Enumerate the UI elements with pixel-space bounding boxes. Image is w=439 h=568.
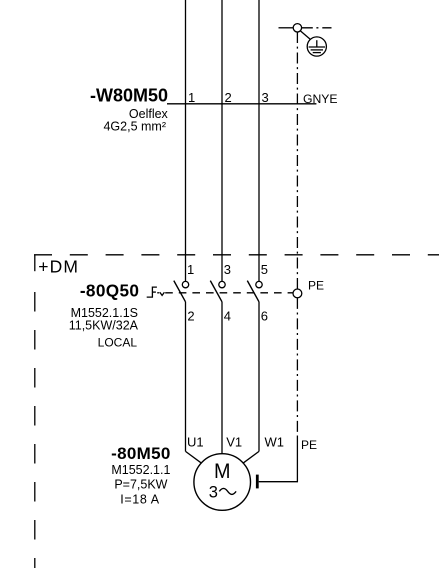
svg-text:Oelflex: Oelflex: [129, 107, 169, 121]
svg-text:U1: U1: [187, 435, 204, 450]
wire PE vertical dash-dot upper: [296, 32, 298, 289]
breaker Q50 pole 1 contact: [174, 281, 189, 302]
svg-text:4G2,5 mm²: 4G2,5 mm²: [103, 120, 166, 134]
wire PE dash-dot right: [302, 27, 332, 29]
svg-text:-80Q50: -80Q50: [80, 280, 139, 300]
terminal PE top: [293, 24, 301, 32]
wire L3 top: [258, 0, 260, 281]
svg-text:GNYE: GNYE: [303, 92, 338, 106]
cable W80M50 line: [167, 103, 316, 105]
wire PE dash-dot lower: [296, 298, 298, 438]
svg-text:PE: PE: [308, 279, 324, 293]
location boundary +DM horizontal dashed: [34, 254, 439, 256]
svg-text:-80M50: -80M50: [111, 444, 170, 463]
wire L1 top: [185, 0, 187, 281]
svg-text:W1: W1: [265, 435, 285, 450]
svg-text:P=7,5KW: P=7,5KW: [114, 478, 167, 492]
wire L2 top: [221, 0, 223, 281]
trip symbol F: [147, 287, 157, 297]
location boundary left vertical dashed: [34, 292, 36, 568]
svg-text:11,5KW/32A: 11,5KW/32A: [69, 319, 139, 333]
wire PE to motor: [259, 481, 298, 483]
wire to earth symbol: [300, 31, 310, 39]
svg-text:1: 1: [187, 262, 194, 277]
motor PE terminal bar: [256, 475, 259, 489]
earth symbol PE: [307, 37, 326, 56]
motor tilde: [219, 488, 236, 494]
svg-text:M: M: [214, 460, 231, 483]
svg-text:2: 2: [187, 309, 194, 324]
svg-text:I=18 A: I=18 A: [120, 492, 159, 506]
location boundary left corner tick: [34, 255, 36, 271]
wire U1 diagonal: [186, 451, 202, 463]
breaker Q50 pole 3 contact: [247, 281, 262, 302]
terminal PE Q50: [293, 289, 302, 298]
svg-text:V1: V1: [226, 435, 242, 450]
svg-text:6: 6: [261, 309, 268, 324]
svg-text:PE: PE: [301, 438, 317, 452]
wire W1 diagonal: [243, 451, 259, 463]
svg-text:3: 3: [262, 90, 269, 105]
svg-text:+DM: +DM: [38, 257, 79, 277]
wire PE stub left: [279, 27, 294, 29]
svg-text:-W80M50: -W80M50: [90, 86, 168, 106]
svg-text:2: 2: [225, 90, 232, 105]
svg-text:1: 1: [188, 90, 195, 105]
svg-text:5: 5: [261, 262, 268, 277]
motor M50 circle: [194, 454, 251, 511]
wire L3 lower: [258, 302, 260, 452]
svg-text:M1552.1.1: M1552.1.1: [111, 463, 170, 477]
svg-text:LOCAL: LOCAL: [98, 335, 138, 349]
trip symbol v notch: [160, 292, 165, 295]
wire L2 lower: [221, 302, 223, 454]
wire L1 lower: [185, 302, 187, 452]
svg-text:3: 3: [209, 483, 218, 501]
wire PE solid down: [296, 438, 298, 482]
svg-text:3: 3: [224, 262, 231, 277]
linkage short dash: [157, 292, 159, 294]
linkage dashed line: [165, 292, 293, 294]
breaker Q50 pole 2 contact: [210, 281, 225, 302]
svg-text:4: 4: [224, 309, 231, 324]
